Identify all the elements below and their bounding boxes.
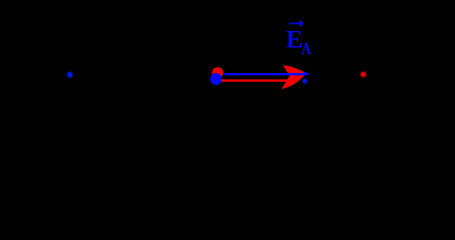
svg-text:E: E <box>286 27 303 54</box>
charge -q blue circle (front) <box>210 73 222 85</box>
wire : blue field-vector shaft <box>224 73 305 75</box>
node A : small blue point at arrow tip <box>303 79 308 84</box>
node B : small blue point charge at left <box>67 72 73 78</box>
svg-text:A: A <box>301 40 311 59</box>
node C : small red point charge at right <box>361 72 367 78</box>
blue arrowhead <box>303 71 310 77</box>
vector hat arrow over E <box>289 20 304 27</box>
charge +q red circle (behind, top crescent visible) <box>212 67 223 78</box>
wire : red force-vector shaft <box>222 79 294 81</box>
label E_A vector symbol <box>286 27 311 59</box>
red arrowhead (large stealth, slightly tilted) <box>282 65 307 89</box>
